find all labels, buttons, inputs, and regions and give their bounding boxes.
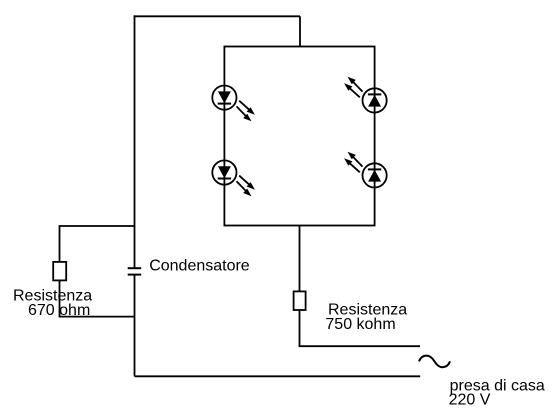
wire bottom horizontal (AC source bottom terminal) (135, 375, 421, 377)
wire branch top horizontal (60, 225, 135, 227)
resistor R2 750 kohm (294, 291, 306, 310)
svg-text:220 V: 220 V (449, 391, 491, 408)
wire top horizontal (134, 15, 300, 17)
LED D4 bottom-right (344, 152, 387, 188)
capacitor C1 Condensatore (128, 268, 142, 274)
wire from resistor R2 down (299, 310, 301, 346)
wire horizontal to AC source top terminal (299, 345, 420, 347)
wire from LED box bottom down to resistor R2 (299, 226, 301, 292)
wire left vertical lower (capacitor to bottom) (134, 275, 136, 377)
wire left branch vertical upper (to resistor R1) (59, 225, 61, 262)
wire branch bottom horizontal (60, 316, 135, 318)
wire LED bridge rectangle (224, 47, 374, 226)
wire left vertical upper (to capacitor) (134, 15, 136, 268)
AC source V1 (sine symbol) (419, 356, 450, 368)
svg-text:750 kohm: 750 kohm (325, 316, 395, 333)
svg-text:670 ohm: 670 ohm (28, 302, 90, 319)
LED D2 bottom-left (212, 160, 255, 196)
LED D3 top-right (344, 77, 387, 113)
wire left branch vertical lower (resistor R1 to bottom branch) (59, 280, 61, 317)
svg-text:Condensatore: Condensatore (149, 257, 250, 274)
LED D1 top-left (212, 86, 255, 122)
wire right vertical from top to LED box (299, 16, 301, 46)
resistor R1 670 ohm (53, 262, 66, 281)
